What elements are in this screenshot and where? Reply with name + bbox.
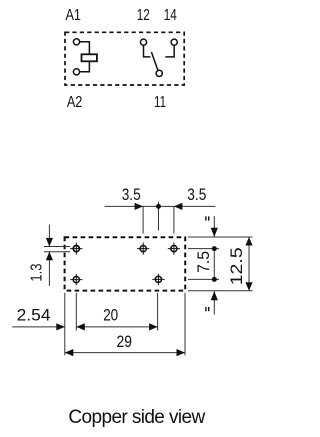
arrowhead left at 3.5	[174, 203, 183, 210]
svg-text:11: 11	[154, 94, 166, 111]
svg-text:3.5: 3.5	[187, 185, 206, 204]
pad hole 12	[137, 243, 149, 255]
svg-text:7.5: 7.5	[194, 251, 213, 273]
svg-text:20: 20	[103, 305, 118, 324]
dimension 29 line	[65, 352, 185, 354]
svg-text:29: 29	[117, 332, 133, 351]
dimension 12.5 line	[248, 237, 250, 291]
pad hole A2	[70, 274, 82, 285]
terminal A2	[73, 69, 79, 75]
footprint outline (dashed rect, copper side)	[65, 237, 186, 290]
terminal 11	[156, 70, 162, 76]
wire A1 to coil	[80, 42, 90, 54]
svg-text:A2: A2	[67, 94, 83, 111]
wire coil to A2	[80, 61, 90, 71]
terminal 14	[171, 39, 177, 45]
equal mark top	[213, 216, 215, 237]
svg-text:1.3: 1.3	[29, 264, 46, 282]
svg-text:2.54: 2.54	[17, 305, 51, 324]
terminal A1	[73, 39, 79, 45]
terminal 12	[140, 39, 146, 45]
pad hole 11	[152, 274, 164, 285]
dimension 20 line	[76, 326, 157, 328]
right extension lines	[188, 237, 253, 291]
pad hole A1	[70, 243, 82, 255]
dimension 2.54 line	[12, 326, 65, 328]
center reference dot	[156, 204, 161, 209]
fixed contact 12	[144, 45, 151, 57]
relay outline (dashed box, schematic)	[65, 32, 184, 85]
dimension 7.5 line with dots	[213, 249, 215, 280]
svg-text:12: 12	[137, 7, 150, 24]
fixed contact 14	[165, 45, 174, 57]
svg-text:Copper side view: Copper side view	[68, 407, 205, 428]
svg-text:12.5: 12.5	[227, 247, 246, 285]
equal mark bottom	[213, 291, 215, 315]
dimension 1.3 arrows	[48, 225, 50, 247]
svg-text:A1: A1	[65, 7, 81, 24]
dimension line 3.5/3.5	[105, 202, 216, 234]
dimension 1.3 tangent lines	[44, 247, 70, 252]
pad hole 14	[168, 243, 180, 255]
svg-text:14: 14	[164, 7, 177, 24]
arrowhead right at 3.5	[135, 203, 144, 210]
movable contact arm 11	[151, 52, 158, 71]
bottom extension lines	[65, 293, 185, 355]
svg-text:3.5: 3.5	[122, 185, 141, 204]
coil	[82, 54, 97, 61]
